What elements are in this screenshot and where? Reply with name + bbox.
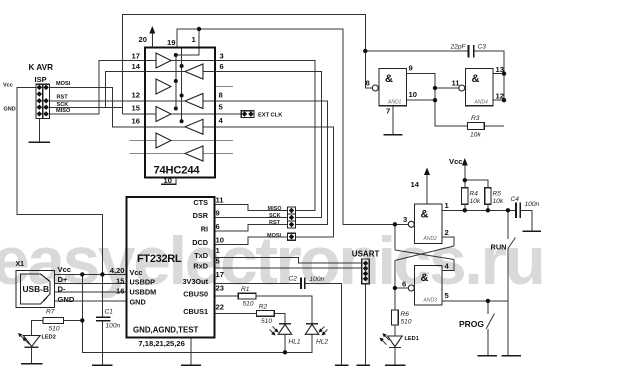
svg-text:17: 17 (216, 270, 224, 279)
svg-text:C4: C4 (511, 196, 520, 203)
svg-text:10k: 10k (470, 198, 481, 205)
svg-text:SCK: SCK (57, 102, 69, 108)
svg-text:8: 8 (219, 91, 223, 100)
svg-text:USART: USART (352, 250, 380, 259)
svg-text:AND2: AND2 (423, 236, 438, 242)
svg-text:DCD: DCD (192, 238, 208, 247)
svg-text:MOSI: MOSI (56, 81, 71, 87)
svg-text:CBUS1: CBUS1 (183, 307, 208, 316)
svg-text:GND: GND (4, 107, 16, 113)
svg-text:PROG: PROG (459, 319, 484, 329)
svg-text:RUN: RUN (491, 242, 507, 251)
svg-text:Vcc: Vcc (130, 268, 143, 277)
svg-text:100n: 100n (310, 276, 325, 283)
svg-text:C1: C1 (105, 309, 114, 316)
svg-text:3: 3 (403, 215, 407, 224)
svg-text:&: & (385, 73, 393, 85)
svg-text:MISO: MISO (56, 108, 71, 114)
svg-text:R7: R7 (46, 309, 55, 316)
svg-text:MISO: MISO (268, 206, 283, 212)
svg-text:15: 15 (132, 104, 141, 113)
svg-text:R3: R3 (471, 115, 480, 122)
svg-text:12: 12 (132, 91, 140, 100)
svg-text:Vcc: Vcc (58, 265, 72, 274)
svg-text:&: & (421, 272, 429, 284)
svg-text:GND: GND (58, 295, 75, 304)
svg-text:11: 11 (452, 79, 461, 88)
svg-text:ISP: ISP (35, 75, 47, 84)
svg-text:16: 16 (132, 116, 140, 125)
svg-text:20: 20 (139, 35, 147, 44)
svg-text:D+: D+ (58, 275, 68, 284)
svg-text:HL2: HL2 (316, 339, 328, 346)
svg-text:LED1: LED1 (405, 336, 419, 342)
svg-text:FT232RL: FT232RL (137, 253, 182, 265)
svg-text:6: 6 (216, 222, 220, 231)
svg-text:&: & (472, 73, 480, 85)
svg-text:EXT CLK: EXT CLK (258, 113, 283, 119)
svg-text:11: 11 (216, 195, 225, 204)
svg-text:100n: 100n (525, 201, 540, 208)
svg-text:14: 14 (411, 180, 420, 189)
svg-text:K AVR: K AVR (29, 63, 54, 72)
svg-text:16: 16 (116, 287, 124, 296)
svg-text:R6: R6 (401, 311, 410, 318)
svg-text:Vcc: Vcc (449, 157, 463, 166)
svg-text:9: 9 (216, 209, 220, 218)
svg-text:6: 6 (402, 280, 406, 289)
svg-text:&: & (421, 209, 429, 221)
svg-text:100n: 100n (106, 323, 121, 330)
svg-text:TxD: TxD (194, 251, 208, 260)
svg-text:USBDP: USBDP (130, 277, 156, 286)
svg-text:22pF: 22pF (450, 44, 467, 51)
svg-text:6: 6 (220, 62, 224, 71)
svg-text:RST: RST (269, 220, 281, 226)
svg-text:9: 9 (409, 64, 413, 73)
svg-text:2: 2 (445, 228, 449, 237)
svg-text:AND1: AND1 (387, 100, 402, 106)
svg-text:HL1: HL1 (289, 339, 301, 346)
svg-text:DSR: DSR (193, 211, 209, 220)
svg-text:10: 10 (216, 235, 224, 244)
svg-text:7: 7 (386, 107, 390, 116)
svg-text:23: 23 (216, 284, 224, 293)
svg-text:USBDM: USBDM (130, 287, 157, 296)
svg-text:22: 22 (216, 303, 224, 312)
svg-text:RI: RI (201, 225, 208, 234)
svg-text:CBUS0: CBUS0 (183, 290, 208, 299)
svg-text:10: 10 (164, 176, 172, 185)
svg-text:RxD: RxD (193, 261, 208, 270)
svg-text:7,18,21,25,26: 7,18,21,25,26 (138, 339, 184, 348)
svg-text:3: 3 (220, 51, 224, 60)
svg-text:R1: R1 (241, 286, 250, 293)
svg-text:15: 15 (116, 276, 125, 285)
svg-text:10k: 10k (493, 198, 504, 205)
svg-text:17: 17 (132, 51, 140, 60)
svg-text:USB-B: USB-B (23, 284, 50, 294)
svg-text:RST: RST (57, 94, 69, 100)
svg-text:GND: GND (130, 297, 146, 306)
svg-text:AND4: AND4 (474, 100, 489, 106)
svg-text:510: 510 (401, 319, 412, 326)
svg-text:10: 10 (409, 90, 417, 99)
svg-text:510: 510 (243, 301, 254, 308)
svg-text:CTS: CTS (193, 198, 208, 207)
svg-text:SCK: SCK (269, 213, 281, 219)
svg-text:510: 510 (261, 318, 272, 325)
svg-text:C2: C2 (289, 276, 298, 283)
svg-text:R4: R4 (470, 191, 479, 198)
svg-text:Vcc: Vcc (3, 82, 13, 88)
svg-text:D-: D- (58, 285, 66, 294)
svg-text:C3: C3 (478, 44, 487, 51)
svg-text:MOSI: MOSI (267, 233, 282, 239)
svg-text:10k: 10k (470, 132, 481, 139)
svg-text:19: 19 (167, 38, 175, 47)
svg-text:4,20: 4,20 (110, 266, 125, 275)
svg-text:3V3Out: 3V3Out (182, 277, 208, 286)
svg-text:74HC244: 74HC244 (154, 165, 201, 177)
svg-text:GND,AGND,TEST: GND,AGND,TEST (133, 326, 198, 335)
svg-text:R2: R2 (259, 304, 268, 311)
svg-text:LED2: LED2 (42, 335, 56, 341)
svg-text:R5: R5 (493, 191, 502, 198)
svg-text:AND3: AND3 (423, 298, 438, 304)
svg-text:510: 510 (49, 326, 60, 333)
svg-text:8: 8 (366, 79, 370, 88)
svg-text:X1: X1 (16, 261, 25, 268)
svg-text:14: 14 (132, 62, 141, 71)
